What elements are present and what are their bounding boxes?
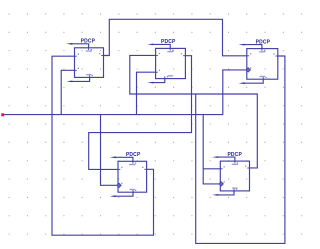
svg-text:PDCP: PDCP — [81, 39, 96, 45]
svg-text:PDCP: PDCP — [126, 152, 141, 158]
svg-text:PDCP: PDCP — [161, 39, 176, 45]
svg-text:PDCP: PDCP — [256, 39, 271, 45]
svg-text:PDCP: PDCP — [227, 152, 242, 158]
